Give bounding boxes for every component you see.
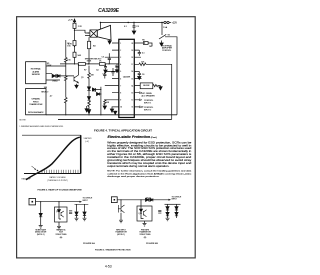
svg-text:12: 12 [131,100,133,102]
svg-text:R7: R7 [84,70,86,72]
svg-text:27K: 27K [141,61,145,63]
svg-text:CA3209E: CA3209E [123,76,131,79]
svg-text:R5: R5 [142,40,144,42]
svg-text:0.1: 0.1 [142,53,145,55]
svg-text:1.5A: 1.5A [163,26,168,29]
svg-text:3: 3 [120,57,121,59]
svg-text:(THRESHOLD POINT): (THRESHOLD POINT) [47,180,68,182]
svg-text:(A): (A) [60,236,63,239]
svg-text:16: 16 [131,71,133,73]
svg-text:C4: C4 [96,69,98,71]
svg-text:1N914: 1N914 [52,81,57,83]
svg-text:FIGURE 6. TRANSIENT PROTECTION: FIGURE 6. TRANSIENT PROTECTION [95,249,131,252]
svg-text:STRUCTURE: STRUCTURE [55,234,67,236]
svg-text:D1 D2: D1 D2 [146,198,151,200]
svg-text:1. RESISTANCE VALUES ARE IN OH: 1. RESISTANCE VALUES ARE IN OHMS UNLESS … [20,125,64,128]
svg-text:FIGURE 6B: FIGURE 6B [146,243,158,245]
svg-text:15K: 15K [67,60,71,62]
svg-text:(+V): (+V) [85,141,89,143]
svg-text:300: 300 [44,87,47,89]
svg-text:discharge and proper device pr: discharge and proper device protection. [107,175,160,178]
svg-text:10: 10 [120,107,122,109]
svg-text:150K: 150K [87,61,92,63]
svg-text:17: 17 [131,64,133,66]
svg-text:PIEZO: PIEZO [33,101,39,103]
svg-text:RATED VOLTAGE: RATED VOLTAGE [49,176,66,179]
svg-text:Electro-static Protection (Con: Electro-static Protection (Cont.) [108,135,158,139]
svg-text:D4: D4 [94,91,96,93]
svg-text:(NOTE 1): (NOTE 1) [37,234,45,236]
svg-text:NOTE: For further information,: NOTE: For further information, consult t… [107,170,192,173]
svg-text:INPUT: INPUT [83,200,89,202]
svg-text:14: 14 [131,85,133,87]
svg-text:R8: R8 [107,102,109,104]
svg-text:Q1: Q1 [81,77,84,79]
svg-text:4-53: 4-53 [105,265,112,269]
svg-text:FIGURE 5. RAMP-UP VOLTAGE WAVE: FIGURE 5. RAMP-UP VOLTAGE WAVEFORM [38,188,82,191]
svg-text:10K: 10K [149,46,153,48]
svg-text:56K: 56K [78,55,82,57]
svg-text:2: 2 [120,50,121,52]
svg-text:9: 9 [120,100,121,102]
svg-text:STRUCTURE: STRUCTURE [139,234,151,236]
svg-text:+12V: +12V [172,23,178,25]
svg-text:0.1: 0.1 [124,26,128,28]
svg-text:1: 1 [120,43,121,45]
svg-text:8Ω: 8Ω [93,45,96,47]
svg-text:5: 5 [120,71,121,73]
svg-text:FIGURE 6A: FIGURE 6A [83,242,95,245]
svg-text:13: 13 [131,93,133,95]
svg-text:4: 4 [120,64,121,66]
svg-text:ALARM: ALARM [33,70,40,73]
svg-text:CONTROL: CONTROL [162,50,171,52]
svg-text:11: 11 [131,107,133,109]
svg-text:18: 18 [131,57,133,59]
svg-text:C7: C7 [115,66,117,68]
svg-text:outlined in the Harris Applica: outlined in the Harris Application Note … [107,172,192,175]
svg-text:10K: 10K [91,75,95,77]
svg-text:C6: C6 [103,74,105,76]
svg-text:SELECT: SELECT [41,91,49,93]
svg-text:15: 15 [131,78,133,80]
svg-text:19: 19 [131,50,133,52]
svg-text:FIGURE 4. TYPICAL APPLICATION: FIGURE 4. TYPICAL APPLICATION CIRCUIT [94,130,153,133]
svg-text:INPUT: INPUT [172,199,178,201]
svg-text:RAMP-UP: RAMP-UP [22,178,32,181]
svg-text:SPEAKER SELECT: SPEAKER SELECT [85,58,103,61]
svg-text:WITH FEEDBACK: WITH FEEDBACK [28,111,44,114]
svg-text:15K: 15K [67,45,71,47]
svg-text:8: 8 [120,93,121,95]
svg-text:R6 39K: R6 39K [143,85,150,87]
svg-text:EXTERNAL: EXTERNAL [31,68,41,71]
svg-text:CERAMIC: CERAMIC [31,98,40,101]
svg-text:C9: C9 [142,74,144,76]
svg-text:4.7: 4.7 [50,96,53,98]
svg-text:S1: S1 [168,34,171,36]
svg-text:6: 6 [120,78,121,80]
svg-text:150K: 150K [47,65,52,67]
svg-text:output terminals during normal: output terminals during normal alarm ope… [107,164,169,168]
svg-text:C5: C5 [102,57,104,59]
svg-text:ALT. SPEAKER: ALT. SPEAKER [142,94,156,97]
svg-text:+12V: +12V [68,20,74,22]
svg-text:INPUT 2: INPUT 2 [144,109,151,111]
svg-text:CA3209E: CA3209E [98,8,119,14]
svg-text:INPUT 1: INPUT 1 [144,102,151,104]
svg-text:20: 20 [131,43,133,45]
svg-text:SENSOR: SENSOR [32,74,41,76]
svg-text:NOTE:: NOTE: [20,119,27,121]
svg-text:(B): (B) [144,237,147,239]
svg-text:C8: C8 [136,26,139,28]
svg-text:TRANSDUCER: TRANSDUCER [29,103,43,106]
svg-text:2.2K: 2.2K [78,26,83,28]
svg-text:VBATTERY: VBATTERY [84,137,92,140]
svg-text:(NOTE 1): (NOTE 1) [117,234,125,236]
svg-text:7: 7 [120,85,121,87]
